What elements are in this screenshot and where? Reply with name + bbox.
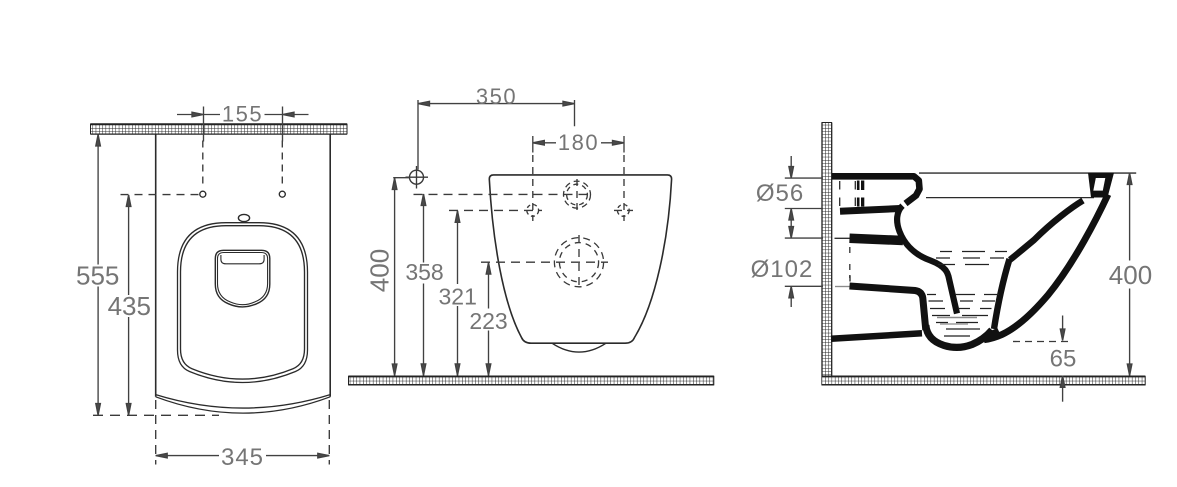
section: bowl interior left wall and funnel left <box>897 206 957 314</box>
svg-text:Ø102: Ø102 <box>751 256 814 283</box>
dimension 65 <box>1013 316 1069 402</box>
vertical dash through inlet circle <box>576 179 578 211</box>
flush inner strip <box>221 255 264 264</box>
vertical dash through drain circle <box>578 235 580 290</box>
345 extension line right (dashed) <box>328 400 330 465</box>
dimension 358 <box>421 194 426 375</box>
water supply symbol <box>410 170 424 184</box>
svg-text:65: 65 <box>1050 346 1077 373</box>
dimension 350 <box>418 100 575 170</box>
section: trap U <box>926 325 992 347</box>
svg-text:345: 345 <box>221 444 264 471</box>
dimension 180 <box>533 136 624 153</box>
seat outline inner <box>181 226 305 379</box>
wall band (hatched) <box>91 124 348 135</box>
flush opening inner <box>218 253 268 305</box>
inlet circle outer (hidden) <box>564 181 591 208</box>
dimension Ø56 <box>785 156 823 237</box>
svg-text:155: 155 <box>222 102 263 127</box>
wall band vertical (hatched) <box>822 123 833 386</box>
under-rim line <box>926 197 1094 199</box>
mounting hole left <box>200 191 206 197</box>
fixing hole right (hidden) <box>617 205 629 217</box>
bottom dashed baseline <box>93 414 219 416</box>
drain circle inner (hidden) <box>559 243 598 282</box>
toilet plan outline <box>489 175 671 343</box>
dimension 321 <box>455 211 460 376</box>
section: funnel right wall <box>994 259 1010 329</box>
centerline dashes: fixing holes level <box>449 209 542 211</box>
mounting hole right <box>279 191 285 197</box>
floor band (hatched) <box>822 376 1145 386</box>
seat outline outer <box>178 223 308 383</box>
svg-text:321: 321 <box>439 284 477 310</box>
inlet pipe opening marks <box>839 181 841 206</box>
floor band (hatched) <box>349 376 714 386</box>
section: drain bottom wall and trap left <box>850 286 926 330</box>
section: bowl interior right wall <box>1010 201 1083 260</box>
svg-text:350: 350 <box>476 84 517 109</box>
water surface dashes <box>927 252 1007 337</box>
drain pipe opening marks <box>835 237 850 239</box>
svg-text:400: 400 <box>1109 260 1152 290</box>
drain circle outer (hidden) <box>554 238 603 287</box>
svg-text:555: 555 <box>76 261 119 291</box>
skirt bottom arc <box>156 397 331 413</box>
345 extension line left (dashed) <box>155 400 157 465</box>
svg-text:223: 223 <box>469 308 507 334</box>
section: drain top wall <box>850 238 904 240</box>
top button ellipse <box>238 214 249 221</box>
centerline dashes: inlet level <box>414 193 593 195</box>
dimension 223 <box>486 263 491 376</box>
dimension 345 <box>156 453 330 458</box>
section: bowl outer right wall <box>984 195 1108 340</box>
top rim line <box>919 172 1136 174</box>
dimension 555 <box>96 135 101 416</box>
svg-text:400: 400 <box>365 249 395 292</box>
dimension Ø102 <box>785 227 823 307</box>
svg-text:180: 180 <box>558 130 599 155</box>
toilet body right edge <box>329 134 331 396</box>
section: outer shell bottom <box>831 333 922 339</box>
hidden lines to mounting holes <box>202 141 204 188</box>
section: top bar and rim hook <box>832 176 920 203</box>
seat boss (black blob with hole) <box>1088 173 1114 198</box>
vertical dashes through fixing holes <box>532 155 534 221</box>
dimension 400 (right) <box>1127 173 1132 376</box>
centerline dashes: drain level <box>481 261 608 263</box>
flush opening outer <box>215 250 269 307</box>
toilet body left edge <box>155 134 157 396</box>
435 reference dashed line <box>121 194 200 196</box>
svg-text:435: 435 <box>108 291 151 321</box>
svg-text:Ø56: Ø56 <box>756 180 804 207</box>
svg-text:358: 358 <box>405 259 443 285</box>
dimension 400 (middle, rotated) <box>392 178 409 376</box>
section: trap outlet junction fill <box>983 332 999 340</box>
fixing hole left (hidden) <box>527 205 539 217</box>
dimension 435 <box>126 195 131 415</box>
dimension 155 <box>177 107 309 142</box>
trap bump arc <box>552 343 606 352</box>
skirt upper arc <box>156 395 331 408</box>
inlet circle inner (hidden) <box>567 184 588 205</box>
section: inlet bottom wall <box>840 209 900 212</box>
